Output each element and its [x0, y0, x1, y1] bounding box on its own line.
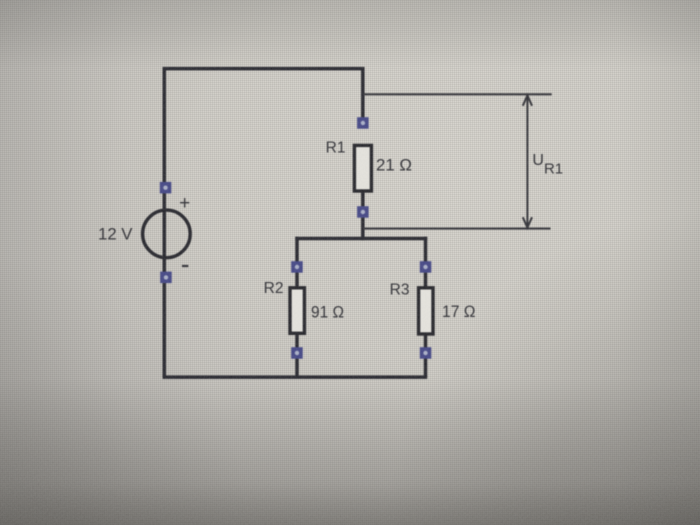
- wire parallel junction bus: [295, 237, 427, 241]
- node terminal below source: [160, 272, 172, 284]
- wire measurement lead top: [363, 93, 552, 95]
- node R3 top terminal: [420, 261, 432, 273]
- arrow U_R1 double-headed measurement arrow: [523, 95, 532, 227]
- wire top from source branch to R1 branch: [164, 69, 362, 378]
- resistor R3 body: [419, 288, 433, 334]
- wire measurement lead bottom: [363, 228, 551, 230]
- wire R1 lower stem to junction: [361, 191, 365, 240]
- label - polarity: [182, 265, 188, 267]
- resistor R1 body: [354, 145, 371, 191]
- wire R2 branch: [295, 237, 299, 377]
- node terminal above source: [160, 182, 172, 194]
- wire bottom return: [163, 375, 428, 379]
- node R2 bottom terminal: [291, 347, 303, 359]
- node R3 bottom terminal: [420, 347, 432, 359]
- wire R3 branch: [424, 237, 428, 377]
- node R2 top terminal: [291, 261, 303, 273]
- resistor R2 body: [290, 288, 304, 334]
- voltage source V1 circle: [143, 210, 191, 258]
- node R1 bottom terminal: [357, 206, 369, 218]
- node R1 top terminal: [357, 117, 369, 129]
